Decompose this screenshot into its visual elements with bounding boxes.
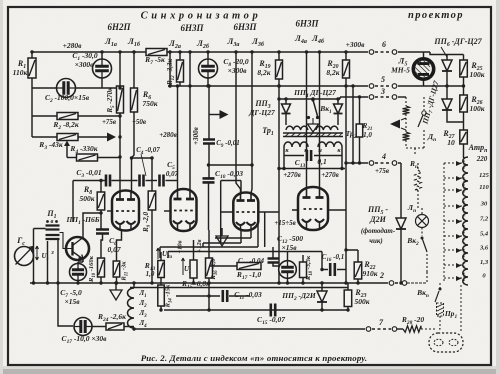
capacitor C3 wire (73, 180, 105, 182)
junction dots (30, 50, 33, 53)
wire Л2 grid stub (164, 210, 171, 212)
fuse Пр1 (437, 303, 444, 316)
svg-text:Рис. 2. Детали с индексом «п»: Рис. 2. Детали с индексом «п» относятся … (141, 353, 368, 363)
wire coupling loop 4 (168, 252, 322, 259)
resistor Rп dashed zigzag (415, 170, 421, 190)
terminal 5 wire (369, 84, 374, 89)
resistor R11 3к (117, 230, 122, 261)
wire collector to C6 (83, 213, 101, 238)
transistor ПП1 (66, 237, 89, 260)
resistor R6 750к (131, 88, 138, 112)
wire Л4 grid stubs (292, 209, 346, 211)
resistor R2 (32, 115, 57, 117)
capacitor C5 plates (160, 175, 164, 187)
resistor R14 15к (160, 278, 162, 286)
wire Л1б anode line (133, 52, 135, 88)
wire mic to switch (34, 229, 46, 284)
tap dashes (444, 162, 463, 164)
tube Л1 6Н2П (112, 191, 139, 231)
lamp Л5 МН-5 (413, 59, 433, 79)
resistor R23 500к (347, 283, 349, 290)
diode ПП2 Д2И (321, 283, 323, 291)
diode ПП6 (446, 55, 448, 61)
resistor R13 1,0 (160, 252, 162, 261)
capacitor C13 (284, 155, 342, 157)
resistor R1 (31, 52, 33, 58)
wire +270в rail (279, 168, 345, 170)
capacitor C4 plates (140, 175, 144, 187)
resistor R10 160к (98, 258, 105, 277)
light arrow (390, 120, 400, 129)
resistor R8 500к (100, 179, 102, 192)
diode ПП3 left (285, 99, 287, 104)
wire Л3б anode line (251, 52, 252, 193)
resistor R22 910к (346, 250, 358, 262)
wire Тр2 column (352, 86, 354, 163)
capacitor C1 (101, 52, 103, 59)
wire ground bus (30, 282, 388, 284)
capacitor C14 (268, 259, 279, 263)
wire ПП5 column (400, 163, 402, 218)
transformer Тр1 secondary (284, 142, 308, 147)
wire 3 (340, 97, 368, 99)
wire Тр1 secondary drops (284, 147, 342, 169)
tube Л4 6Н3П (298, 187, 328, 230)
border frame (0, 0, 1, 1)
switch П1 contacts (46, 226, 60, 230)
wire C9 column (208, 86, 210, 139)
wire Л1 grid stub (107, 210, 112, 212)
tube Л3 6Н3П (233, 193, 258, 231)
resistor R24 2,6к (92, 326, 106, 328)
switch Дп (423, 97, 425, 110)
wire node 5 to column (442, 85, 464, 87)
resistor R18 3,3к (302, 255, 304, 262)
switch Вк1 (311, 98, 314, 101)
diode ПП7 (446, 86, 448, 99)
wire Л1а anode line (119, 52, 121, 86)
wire coupling loop 3 (160, 212, 258, 258)
diode ПП5 (396, 218, 406, 229)
resistor R20 8,2к (345, 52, 347, 60)
paper noise (0, 0, 1, 1)
capacitor C3 plates (106, 175, 110, 187)
wire screen bus (168, 85, 368, 87)
wire Тр1 top (279, 98, 340, 100)
resistor R28 20 (403, 326, 421, 332)
wire Л3 anode loop (221, 181, 241, 205)
resistor R15 6,8к (193, 240, 195, 260)
resistor R9 2,0 (151, 158, 153, 191)
wire to Л3б (209, 164, 253, 166)
resistor R27 10 (460, 130, 468, 144)
resistor R17 1,0 (209, 265, 237, 267)
wire Л4б anode line (319, 52, 321, 188)
autotransformer winding (463, 157, 468, 285)
wire switch column down (58, 239, 73, 326)
wire 4 (346, 162, 368, 164)
grid arrow of Л2 (209, 114, 220, 116)
terminal 6 wire (369, 50, 374, 55)
transformer Тр1 core (283, 132, 343, 134)
capacitor C2 (32, 87, 56, 89)
wire coupling loop 1 (215, 230, 251, 238)
scan edge shading (0, 369, 500, 374)
capacitor C6 (101, 213, 103, 229)
wire base (60, 233, 73, 249)
label Uг with arrow (36, 246, 39, 260)
capacitor C11 wire (176, 295, 220, 297)
ground in Тр1 center (312, 118, 314, 124)
dashed bus lines to plug (443, 163, 445, 283)
resistor R25 100к (463, 55, 465, 61)
capacitor C9 (203, 140, 215, 144)
resistor R7 on bus (146, 49, 167, 56)
wire Л3а anode line (236, 52, 241, 193)
resistor R3 (32, 136, 57, 138)
wire Л2б line (189, 52, 191, 86)
capacitor C15 (271, 304, 275, 317)
wire emitter to C7 (78, 259, 83, 264)
wire top supply bus (32, 51, 368, 53)
ground below bus left (115, 283, 117, 290)
plug socket (429, 333, 463, 352)
wire Л1 cathode leads (122, 229, 130, 230)
wire C15 bus (164, 309, 348, 311)
capacitor C10 on column (203, 178, 215, 182)
capacitor C16 (322, 269, 328, 271)
choke windings Л1-Л4 (133, 283, 135, 288)
resistor R26 100к (463, 86, 465, 95)
capacitor C7 (70, 264, 87, 281)
resistor R5 270к (117, 86, 124, 113)
ground mid (221, 228, 223, 236)
wire C14 column (272, 247, 274, 258)
wire Л3 grid stubs (221, 204, 279, 247)
photoresistor column dotted (405, 97, 407, 106)
wire Л4 cathode down (321, 252, 323, 270)
tube Л2 6Н3П (171, 189, 197, 231)
wire photocell down (414, 148, 416, 155)
transformer Тр1 primary (286, 126, 308, 130)
wire fuse down (437, 316, 440, 329)
wire second bottom bus (130, 287, 348, 289)
diode Тр1 right (337, 99, 339, 104)
wire coupling loop 2 (203, 230, 241, 247)
wire grid left drop (72, 181, 74, 223)
wire Л1б anode branch (132, 157, 153, 159)
leader line ПП6 (441, 47, 447, 57)
resistor R16 2,0 (208, 230, 210, 258)
resistor R21 1,0 (359, 97, 361, 124)
capacitor C12 (287, 252, 289, 261)
resistor R12 3,3к (179, 52, 181, 60)
resistor R19 8,2к (278, 52, 280, 60)
wire Л2а line (169, 52, 171, 86)
capacitor C17 (74, 318, 92, 336)
wire switch leg down (47, 241, 49, 283)
grid arrow of Л1а (107, 133, 116, 142)
capacitor C8 (207, 52, 209, 59)
wire Л4а anode line (306, 52, 308, 188)
resistor R4 with pot arrow (66, 145, 68, 158)
wire 7 bus (134, 328, 365, 330)
